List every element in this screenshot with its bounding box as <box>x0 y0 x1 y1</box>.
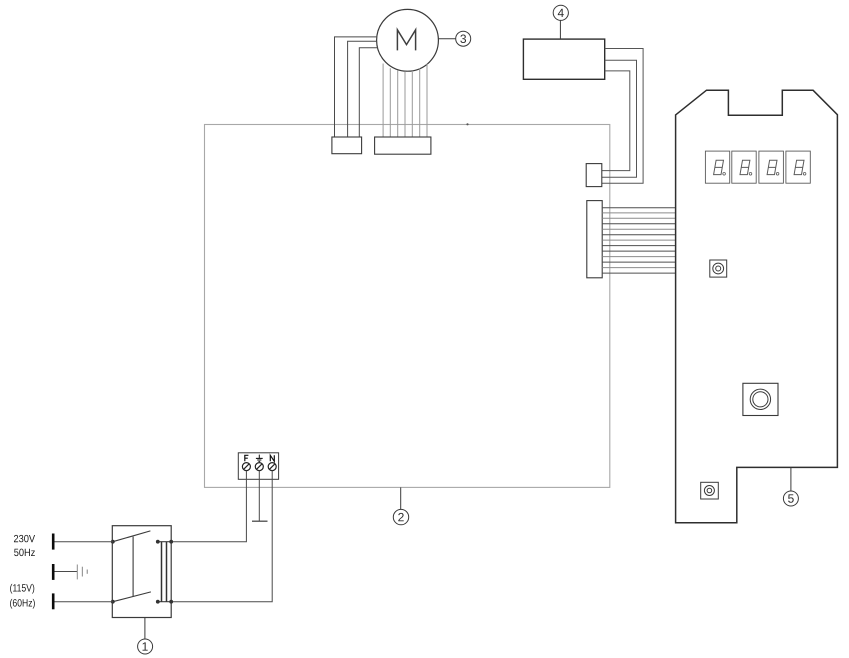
motor bottom wire 2 <box>389 68 391 137</box>
voltage selector switch 1 <box>111 526 173 618</box>
label 3 <box>456 31 471 46</box>
ribbon wire 2 <box>602 212 675 214</box>
connector J3 (3-wire, board right) <box>586 164 602 187</box>
motor bottom wire 5 <box>411 71 413 137</box>
supply 115V texts <box>10 584 34 594</box>
motor wire 2 (left middle) <box>348 41 377 137</box>
label 4 <box>553 5 568 20</box>
button S3 (large) <box>743 383 778 415</box>
ribbon wire 8 <box>602 245 675 247</box>
motor wire 3 (left inner) <box>359 48 378 137</box>
wire 230V to switch <box>55 541 113 543</box>
display DS2 <box>732 151 756 183</box>
motor bottom wire 4 <box>404 71 406 137</box>
blade pole 1 <box>113 531 151 542</box>
earth symbol (sideways) <box>77 565 87 580</box>
supply 115V prong <box>52 593 55 609</box>
label 2 <box>393 509 408 524</box>
ribbon wire 11 <box>602 261 675 263</box>
wire N (terminal to switch) <box>171 471 272 602</box>
wire box4-c <box>602 71 630 171</box>
mechanical link <box>132 537 134 597</box>
ribbon wire 9 <box>602 250 675 252</box>
label 1 leader <box>144 618 146 639</box>
terminal N <box>268 455 276 470</box>
connector J2 (7-wire, on board top) <box>375 137 431 154</box>
earth prong <box>52 564 55 580</box>
connector J1 (3-wire, on board top) <box>332 137 362 154</box>
ribbon wire 3 <box>602 217 675 219</box>
pole2 contact stub <box>158 601 171 603</box>
supply 230V prong <box>52 534 55 550</box>
speck on board top edge <box>466 123 468 125</box>
link bar a <box>161 542 163 602</box>
ground bar <box>252 520 268 522</box>
label 3 leader wire <box>438 38 456 40</box>
link bar b <box>166 542 168 602</box>
wire box4-b <box>602 60 637 177</box>
button S2 (upper small) <box>710 260 727 277</box>
pole1 contact stub <box>158 541 171 543</box>
terminal F <box>242 455 250 470</box>
blade pole 2 <box>113 592 151 602</box>
motor wire 1 (left outer) <box>335 37 378 137</box>
junction dots <box>111 540 115 544</box>
motor M <box>377 9 439 71</box>
ribbon wire 5 <box>602 228 675 230</box>
display DS1 <box>705 151 729 183</box>
display DS3 <box>759 151 784 183</box>
control panel 5 outline <box>676 90 838 523</box>
ribbon wire 13 <box>602 272 675 274</box>
ribbon wire 1 <box>602 207 675 209</box>
ribbon wire 4 <box>602 223 675 225</box>
display DS4 <box>786 151 810 183</box>
motor bottom wire 6 <box>419 69 421 138</box>
motor bottom wire 3 <box>397 71 399 138</box>
motor bottom wire 7 <box>426 64 428 138</box>
button S4 (lower small) <box>701 482 719 499</box>
main board 2 <box>205 125 610 488</box>
ribbon wire 10 <box>602 256 675 258</box>
wire 115V to switch <box>55 601 113 603</box>
label 1 <box>138 639 153 654</box>
ribbon wire 7 <box>602 239 675 241</box>
terminal earth <box>255 455 263 471</box>
transformer box 4 <box>523 39 604 79</box>
terminal block TB1 <box>238 453 278 480</box>
ribbon wire 6 <box>602 234 675 236</box>
wire F (terminal to switch) <box>171 471 246 542</box>
ribbon wire 12 <box>602 267 675 269</box>
label 4 leader <box>559 20 561 39</box>
label 5 leader <box>790 467 792 491</box>
earth wire from terminal <box>258 471 260 522</box>
connector J4 (ribbon, board right) <box>587 201 602 278</box>
wire box4-a <box>602 49 643 184</box>
supply 230V texts <box>14 535 35 542</box>
label 5 <box>783 491 798 506</box>
motor bottom wire 1 <box>382 64 384 138</box>
label 2 leader <box>400 487 402 509</box>
earth wire <box>55 571 78 573</box>
